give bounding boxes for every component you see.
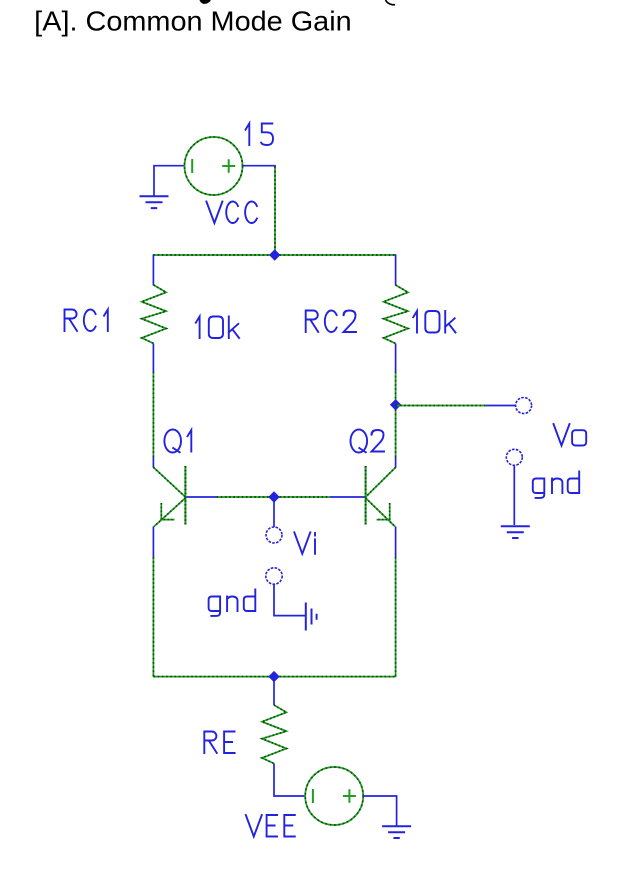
label Vi bbox=[294, 532, 315, 554]
ground AGND (left) bbox=[306, 603, 317, 631]
wire Q2 base stub bbox=[330, 496, 365, 498]
label gnd right bbox=[533, 472, 579, 498]
transistor Q1 emitter arrow bbox=[161, 503, 174, 520]
wire RC2 to pin bbox=[395, 344, 397, 372]
wire Q1 base stub bbox=[187, 496, 217, 498]
label Q2 bbox=[351, 429, 385, 452]
wire Q2 collector stub bbox=[395, 457, 397, 468]
transistor Q2 emitter arrow bbox=[377, 503, 390, 520]
wire bottom rail to RE bbox=[273, 680, 275, 706]
terminal Vi bbox=[266, 527, 282, 543]
wire RE to VEE source bbox=[274, 764, 305, 797]
terminal gnd right bbox=[506, 449, 522, 465]
junction bottom rail bbox=[268, 671, 279, 682]
label RC1 bbox=[65, 310, 108, 332]
voltage source VEE bbox=[305, 767, 363, 825]
transistor Q1 collector diagonal bbox=[153, 467, 185, 497]
wire Q1 emitter to bottom rail bbox=[152, 557, 154, 677]
wire bottom rail bbox=[153, 676, 395, 678]
svg-text:[A]. Common Mode Gain: [A]. Common Mode Gain bbox=[34, 5, 352, 36]
wire Q1 collector stub bbox=[152, 457, 154, 468]
wire VEE source to ground bbox=[363, 796, 396, 826]
transistor Q1 base bar bbox=[184, 466, 186, 525]
wire top rail to RC1 bbox=[152, 254, 154, 285]
wire Vo terminal stub bbox=[486, 405, 516, 407]
resistor RE bbox=[262, 705, 286, 764]
ground (VCC source) bbox=[140, 196, 169, 208]
wire VCC source to drop bbox=[243, 166, 276, 167]
wire top rail bbox=[153, 254, 395, 256]
label RC2 bbox=[306, 311, 356, 333]
wire base rail bbox=[217, 496, 331, 498]
label value 15 bbox=[246, 124, 273, 146]
title text bbox=[34, 5, 352, 36]
transistor Q2 base bar bbox=[365, 466, 367, 525]
resistor RC1 bbox=[142, 285, 166, 344]
junction Vi node bbox=[268, 491, 279, 502]
wire RC1 to pin bbox=[152, 344, 154, 372]
terminal gnd left bbox=[266, 568, 282, 584]
wire gnd right terminal bbox=[513, 465, 515, 525]
wire Q1 emitter stub bbox=[152, 527, 154, 558]
label VEE bbox=[246, 815, 295, 837]
wire Vo node to terminal bbox=[396, 405, 486, 407]
label RE bbox=[204, 732, 234, 754]
wire Q2 emitter to bottom rail bbox=[395, 557, 397, 677]
label 10k left bbox=[196, 317, 239, 339]
transistor Q2 collector diagonal bbox=[366, 467, 396, 497]
wire top rail to RC2 bbox=[395, 254, 397, 285]
label gnd left bbox=[209, 590, 256, 616]
transistor Q1 emitter diagonal bbox=[154, 498, 185, 527]
wire VCC drop to top rail bbox=[274, 167, 276, 256]
cut-off text fragment (descender) at top bbox=[200, 0, 211, 4]
resistor RC2 bbox=[384, 285, 408, 344]
label VCC bbox=[206, 202, 257, 224]
junction Vo node bbox=[390, 399, 401, 410]
ground (right) bbox=[501, 526, 530, 538]
wire Vi stub bbox=[273, 500, 275, 527]
wire RC2 to Q2 collector bbox=[395, 372, 397, 458]
wire ground to VCC source bbox=[154, 166, 185, 197]
label Q1 bbox=[164, 429, 191, 452]
label 10k right bbox=[413, 311, 455, 333]
label Vo bbox=[554, 424, 587, 446]
voltage source VCC bbox=[185, 137, 243, 195]
junction top rail bbox=[269, 249, 280, 260]
ground (VEE source) bbox=[382, 826, 411, 838]
wire RC1 to Q1 collector bbox=[152, 372, 154, 458]
wire Q2 emitter stub bbox=[395, 527, 397, 558]
cut-off text fragment (parenthesis) at top bbox=[386, 0, 396, 5]
transistor Q2 emitter diagonal bbox=[366, 498, 395, 527]
terminal Vo bbox=[516, 398, 532, 414]
wire gnd left terminal bbox=[274, 584, 305, 615]
